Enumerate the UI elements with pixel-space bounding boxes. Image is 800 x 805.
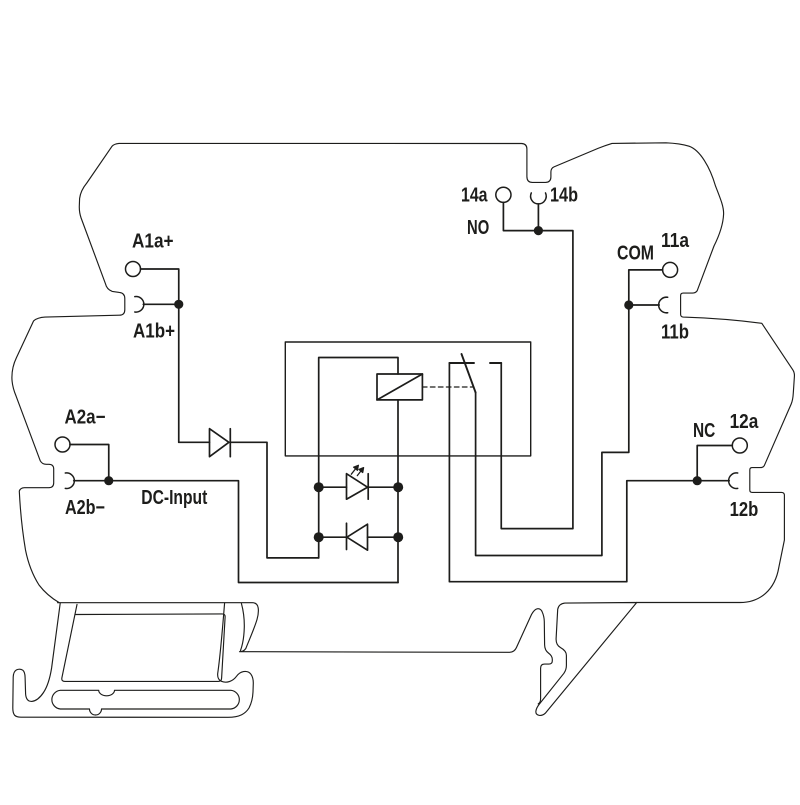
svg-text:11a: 11a (661, 230, 690, 252)
svg-text:COM: COM (617, 243, 654, 265)
svg-text:12b: 12b (730, 499, 759, 521)
terminal 12a (732, 438, 747, 453)
svg-text:DC-Input: DC-Input (141, 487, 207, 509)
node A2b (104, 476, 113, 485)
node 14/NO (534, 226, 543, 235)
node LED top-left (314, 482, 324, 492)
wire NC node to 12b socket (697, 480, 729, 482)
wire LED left column (319, 358, 398, 558)
switch contact (449, 354, 501, 393)
coil-switch link dashed (422, 386, 472, 388)
diode D2 (reverse) (347, 523, 368, 550)
terminal socket A1b (135, 297, 144, 313)
diode D2 triangle (347, 524, 368, 550)
wire LED row 2 (319, 536, 399, 538)
terminal socket 12b (729, 473, 738, 489)
switch moving blade (462, 354, 476, 393)
svg-text:A2b−: A2b− (65, 497, 105, 519)
terminal A1a (126, 262, 141, 277)
wire A2a to node (70, 445, 109, 481)
svg-text:14a: 14a (461, 185, 488, 207)
svg-text:A2a−: A2a− (65, 407, 106, 429)
wire DC-Input (109, 481, 398, 583)
wire A2b socket to node (74, 480, 109, 482)
wire 12a to NC node (697, 446, 732, 481)
wire COM to switch blade (476, 305, 629, 556)
node LED bot-right (393, 532, 403, 542)
wire 14b down (537, 204, 539, 231)
wire A1a to node (141, 269, 179, 442)
housing outline: left profile upper block + A1b notch + lower-left block + A2 notch down to foot (12, 143, 125, 602)
housing outline: upper body top and right profile (12, 143, 795, 718)
diode D1 cathode bar (229, 429, 231, 457)
node LED top-right (393, 482, 403, 492)
terminal socket A2b (65, 473, 74, 489)
terminal 14a (496, 187, 511, 202)
wire diode branch (179, 442, 319, 558)
wire 11a to COM node (629, 270, 663, 305)
terminal 11a (663, 262, 678, 277)
svg-text:14b: 14b (550, 185, 578, 207)
LED V1 triangle (347, 474, 368, 500)
foot: inner parallelogram recess (62, 605, 225, 682)
LED1 (indicator) (347, 474, 369, 500)
node NC (693, 476, 702, 485)
foot: slider top edge, arm crest, plate line, right finger (58, 603, 553, 704)
svg-text:A1a+: A1a+ (132, 230, 174, 252)
diode D1 triangle (210, 429, 229, 457)
diode D1 (210, 429, 231, 457)
terminal socket 11b (659, 297, 668, 313)
svg-text:12a: 12a (730, 411, 759, 433)
terminal socket 14b (531, 193, 547, 204)
diode D2 cathode bar (346, 523, 348, 549)
svg-text:NC: NC (693, 420, 715, 442)
terminal A2a (55, 437, 70, 452)
svg-text:NO: NO (467, 217, 489, 239)
wire LED row 1 (319, 486, 399, 488)
wire switch NC to 12 (449, 363, 697, 582)
switch fixed contact NO side (490, 362, 501, 364)
LED1 light arrows (351, 465, 363, 475)
terminal circles and sockets (55, 187, 747, 488)
wire coil bottom column (397, 400, 399, 583)
node LED bot-left (314, 532, 324, 542)
node COM (624, 300, 633, 309)
foot: slider slit, mouth, bottom edge, left hook (13, 603, 254, 717)
node A1b (174, 300, 183, 309)
svg-text:A1b+: A1b+ (133, 321, 175, 343)
svg-text:11b: 11b (661, 322, 689, 344)
wire 14a down (503, 203, 538, 231)
foot: bottom slot with bumps (52, 690, 239, 715)
LED V1 cathode bar (367, 474, 369, 500)
relay coil K1 (377, 374, 422, 400)
wire A1b socket to node (143, 303, 178, 305)
switch fixed contact NC side (449, 362, 474, 364)
foot: arm inner slit line (241, 603, 245, 650)
inner relay box (285, 342, 530, 456)
wire NO node to switch (501, 231, 573, 529)
wire COM node to socket (629, 304, 659, 306)
